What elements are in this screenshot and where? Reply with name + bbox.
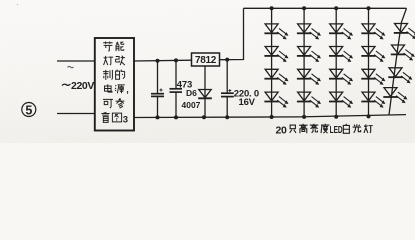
node LED col1 top bbox=[270, 6, 274, 10]
node LED col4 bottom bbox=[367, 114, 371, 118]
regulator U1 7812 bbox=[192, 53, 220, 66]
node LED col2 top bbox=[302, 6, 306, 10]
LED column 2 row 4 bbox=[297, 92, 321, 108]
node C3 bottom bbox=[225, 115, 229, 119]
wire: 7812 ground lead bbox=[204, 66, 206, 117]
label: 20 high-brightness white LEDs bbox=[290, 124, 373, 133]
LED column 1 row 1 bbox=[264, 24, 288, 40]
LED column 1 row 4 bbox=[264, 92, 288, 108]
wire: LED column 3 bbox=[335, 8, 337, 117]
wire: LED column 4 bbox=[368, 8, 370, 117]
LED column 5 row 4 bbox=[383, 88, 407, 104]
LED column 4 row 3 bbox=[361, 69, 385, 85]
LED column 1 row 3 bbox=[264, 69, 288, 85]
LED column 3 row 4 bbox=[329, 92, 353, 108]
node LED col3 top bbox=[334, 6, 338, 10]
node LED col1 bottom bbox=[270, 115, 274, 119]
diode D6 1N4007 bbox=[198, 90, 212, 99]
LED column 5 row 2 bbox=[391, 45, 415, 61]
node C3 top bbox=[225, 58, 229, 62]
node D6 bottom bbox=[202, 115, 206, 119]
wire: LED array top rail bbox=[244, 7, 407, 9]
wire: AC neutral input bbox=[57, 113, 95, 115]
LED column 4 row 4 bbox=[361, 92, 385, 108]
LED column 2 row 3 bbox=[297, 69, 321, 85]
LED column 3 row 1 bbox=[329, 24, 353, 40]
tilde mark on AC wire bbox=[68, 66, 74, 67]
LED column 2 row 2 bbox=[297, 47, 321, 63]
wire: bottom rail bbox=[134, 115, 406, 118]
capacitor C3 220uF 16V electrolytic bbox=[221, 60, 234, 117]
capacitor C2 473 bbox=[170, 60, 183, 117]
LED column 3 row 2 bbox=[329, 47, 353, 63]
label ~220V bbox=[62, 84, 70, 86]
node 5: circled figure number bbox=[22, 103, 36, 118]
wire: LED column 5 (page-curl warped) bbox=[389, 8, 407, 115]
LED column 4 row 1 bbox=[361, 24, 385, 40]
capacitor C1 electrolytic bbox=[151, 61, 164, 117]
LED column 3 row 3 bbox=[329, 69, 353, 85]
node C1 bottom bbox=[156, 115, 160, 119]
LED column 4 row 2 bbox=[361, 47, 385, 63]
node C2 bottom bbox=[174, 115, 178, 119]
wire: LED column 2 bbox=[303, 8, 305, 117]
power supply box bbox=[95, 38, 134, 131]
node LED col2 bottom bbox=[302, 115, 306, 119]
wire: LED column 1 bbox=[271, 8, 273, 117]
box label: converted energy-saving-lamp supply, see fig.3 bbox=[101, 41, 125, 122]
LED column 5 row 1 bbox=[394, 24, 415, 40]
wire: top rail supply box to 7812 input bbox=[134, 59, 192, 62]
LED column 1 row 2 bbox=[264, 47, 288, 63]
node C2 top bbox=[174, 58, 178, 62]
node C1 top bbox=[156, 59, 160, 63]
wire: 7812 output rail and riser bbox=[220, 8, 244, 59]
wire: AC live input bbox=[57, 60, 95, 62]
LED column 5 row 3 bbox=[388, 68, 412, 84]
node LED col4 top bbox=[367, 6, 371, 10]
junction dots top rail bbox=[156, 6, 371, 119]
LED column 2 row 1 bbox=[297, 24, 321, 40]
node LED col3 bottom bbox=[334, 115, 338, 119]
